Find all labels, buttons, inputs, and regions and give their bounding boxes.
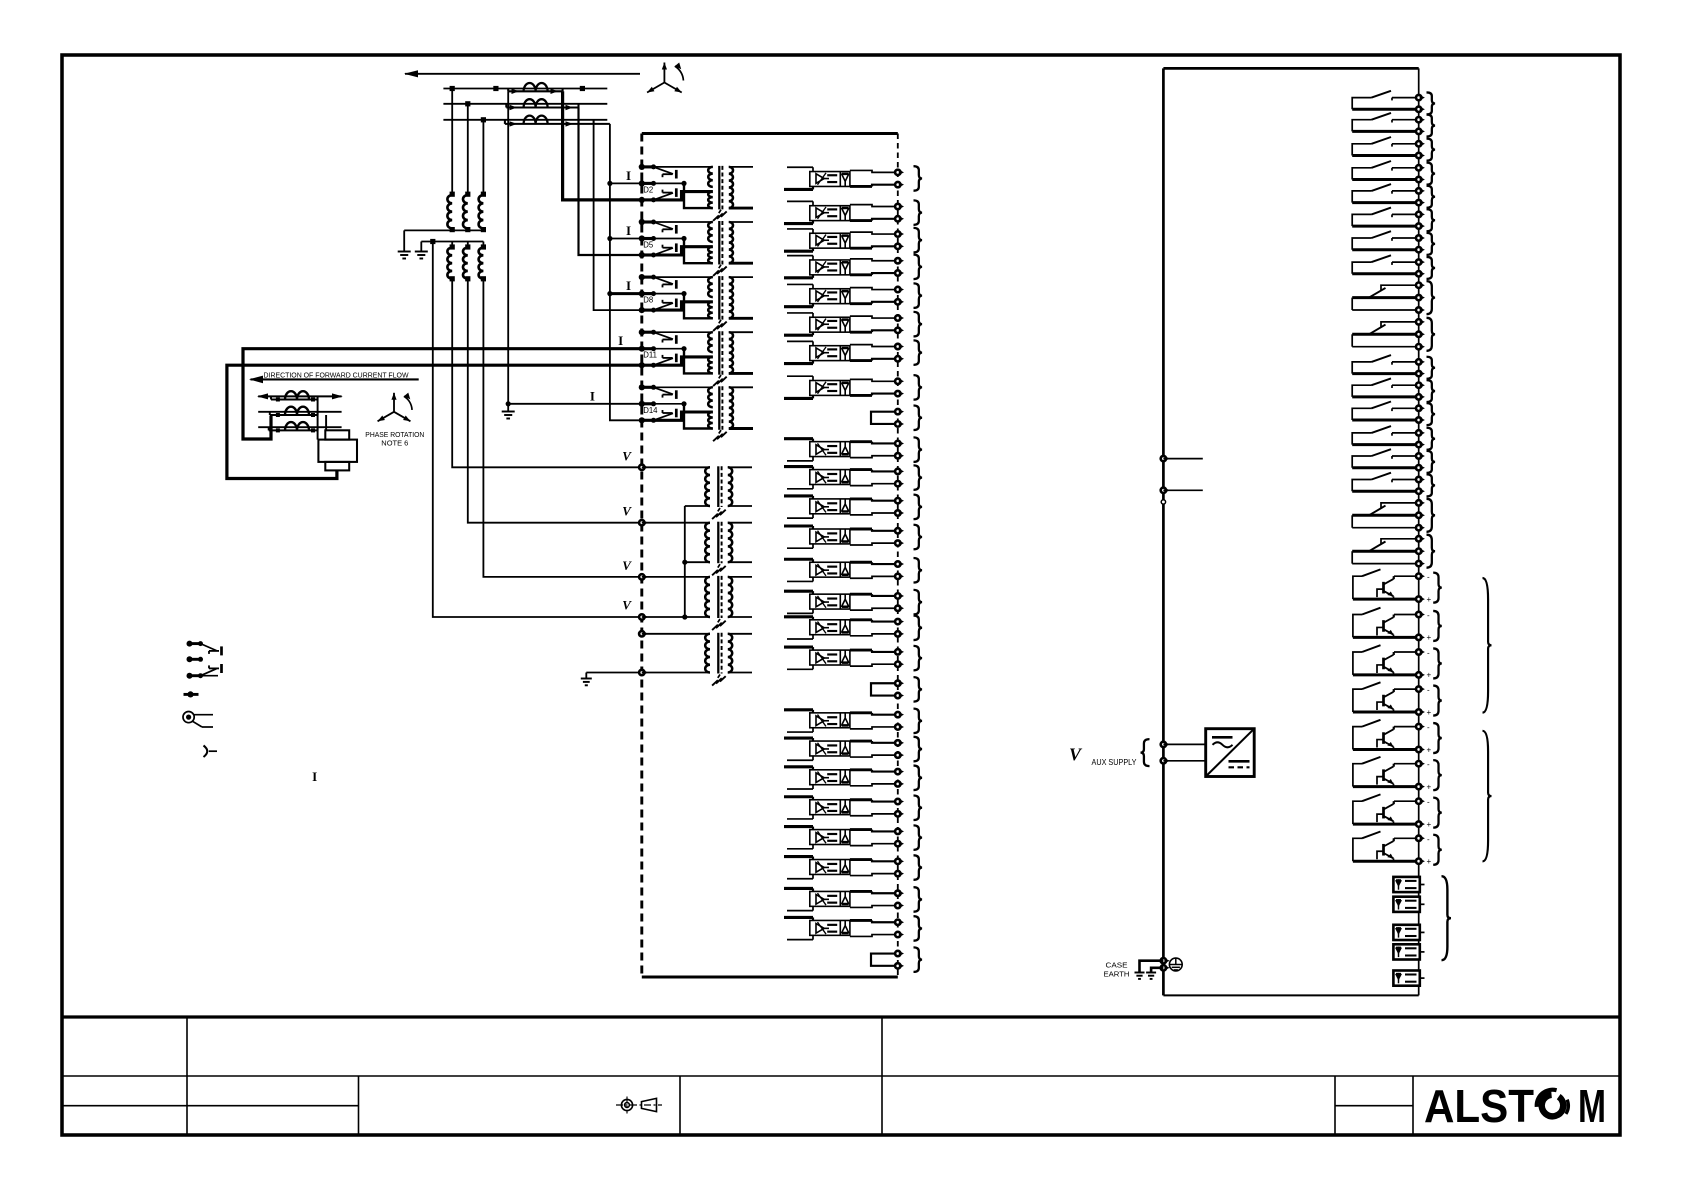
- terminal brace L12: [914, 495, 923, 520]
- svg-text:EARTH: EARTH: [1104, 970, 1130, 979]
- wire to D11 t3: [227, 365, 642, 478]
- high speed output contact Q4: [1394, 688, 1419, 690]
- node/branch to D8 t2 (thick): [607, 291, 612, 296]
- opto input L8: [787, 375, 813, 377]
- svg-text:I: I: [312, 769, 317, 784]
- high speed output contact Q6: [1394, 763, 1419, 765]
- svg-text:I: I: [590, 388, 595, 403]
- terminal brace RL6: [1427, 209, 1436, 231]
- ground: [581, 678, 592, 680]
- terminal brace Q1: [1433, 573, 1442, 603]
- title block: [62, 1015, 1620, 1018]
- opto input L20: [787, 759, 813, 761]
- transformer T-D2: [708, 167, 713, 187]
- transformer T-D8: [708, 277, 713, 297]
- CT phase B: [505, 104, 507, 108]
- first-angle projection symbol: [621, 1099, 632, 1110]
- output contact RL15 (N/O): [1392, 455, 1419, 457]
- svg-text:V: V: [622, 558, 632, 573]
- transformer T-D11: [708, 332, 713, 352]
- output contact RL6 (N/O): [1392, 213, 1419, 215]
- VT common return: [685, 505, 710, 507]
- terminal brace RL11: [1427, 357, 1436, 379]
- svg-text:I: I: [626, 278, 631, 293]
- directional CT phase B: [269, 412, 271, 415]
- legend: terminal: [184, 693, 199, 696]
- svg-text:+: +: [1427, 857, 1432, 866]
- svg-text:D5: D5: [643, 241, 654, 250]
- legend: disconnect hook: [204, 746, 208, 758]
- ground: [1135, 972, 1145, 974]
- terminal brace L2: [914, 200, 923, 225]
- terminal brace L17: [914, 646, 923, 671]
- group brace fibre outputs: [1442, 876, 1452, 960]
- group brace high-speed 5-8: [1483, 731, 1492, 862]
- current input D11: [642, 331, 654, 334]
- transistor Q3: [1382, 658, 1385, 670]
- high speed output contact Q5: [1394, 726, 1419, 728]
- transistor Q7: [1382, 807, 1385, 819]
- relay input module case: [642, 132, 898, 135]
- voltage transformer: [705, 634, 710, 673]
- VT primary tap C: [481, 117, 486, 122]
- phase busbar C: [443, 119, 607, 121]
- output contact RL5 (N/O): [1392, 190, 1419, 192]
- terminal link row 27: [871, 954, 898, 966]
- output contact RL17 (changeover): [1381, 503, 1419, 509]
- svg-text:DIRECTION OF FORWARD CURRENT F: DIRECTION OF FORWARD CURRENT FLOW: [264, 372, 409, 379]
- terminal brace L15: [914, 590, 923, 615]
- opto input L25: [787, 910, 813, 912]
- svg-text:V: V: [622, 448, 632, 463]
- terminal brace RL17: [1427, 499, 1436, 532]
- terminal link row 18: [871, 683, 898, 695]
- ground: [1146, 972, 1156, 974]
- opto input L5: [787, 283, 813, 285]
- terminal brace RL5: [1427, 186, 1436, 208]
- voltage transformer V1: [705, 467, 710, 506]
- phase busbar A: [443, 88, 607, 90]
- wire VT phase A to V1: [452, 279, 642, 468]
- wire CT3s to D8: [594, 124, 642, 310]
- output contact RL9 (changeover): [1381, 285, 1419, 291]
- voltage input Vx: [639, 631, 644, 636]
- line CT bus stub A: [258, 395, 341, 397]
- directional CT phase C: [268, 427, 270, 430]
- VT star point 1 / earth: [404, 229, 483, 231]
- voltage input V3: [639, 574, 644, 579]
- terminal brace L3: [914, 228, 923, 253]
- voltage transformer V2: [705, 523, 710, 563]
- terminal brace RL7: [1427, 233, 1436, 255]
- svg-text:I: I: [618, 333, 623, 348]
- terminal brace L4: [914, 255, 923, 280]
- terminal brace L5: [914, 283, 923, 308]
- VT secondary winding group 1: [450, 192, 455, 197]
- high speed output contact Q1: [1394, 575, 1419, 577]
- opto input L13: [787, 547, 813, 549]
- terminal brace L23: [914, 825, 923, 850]
- opto input L24: [787, 878, 813, 880]
- node CT1 star point: [506, 401, 511, 406]
- terminal brace Q6: [1433, 760, 1442, 790]
- terminal brace L14: [914, 558, 923, 583]
- voltage input V1: [639, 465, 644, 470]
- svg-text:PHASE ROTATION: PHASE ROTATION: [365, 432, 424, 439]
- svg-text:+: +: [1427, 671, 1432, 680]
- svg-text:+: +: [1427, 708, 1432, 717]
- output contact RL4 (N/O): [1392, 167, 1419, 169]
- transformer T-D14: [708, 387, 713, 407]
- bus junction marks: [493, 86, 498, 91]
- svg-text:-: -: [1427, 649, 1430, 658]
- case earth terminals: [1161, 958, 1166, 963]
- svg-text:D14: D14: [643, 406, 658, 415]
- svg-text:V: V: [1069, 745, 1083, 765]
- output contact RL16 (N/O): [1392, 479, 1419, 481]
- node/branch to D5 t2: [607, 236, 612, 241]
- wire CT common to D14: [610, 124, 642, 420]
- output contact RL1 (N/O): [1392, 97, 1419, 99]
- terminal brace row 18: [914, 677, 923, 702]
- current input D5: [642, 220, 654, 223]
- terminal brace RL3: [1427, 139, 1436, 161]
- high speed output contact Q3: [1394, 651, 1419, 653]
- legend: case socket: [183, 712, 194, 723]
- current input D14: [642, 386, 654, 389]
- svg-text:AUX SUPPLY: AUX SUPPLY: [1092, 757, 1137, 767]
- VT primary tap A: [450, 86, 455, 91]
- terminal brace row 27: [914, 947, 923, 972]
- opto input L4: [787, 255, 813, 257]
- transformer T-D5: [708, 222, 713, 242]
- terminal brace L21: [914, 766, 923, 791]
- spare terminals: [1161, 456, 1166, 461]
- terminal brace L22: [914, 796, 923, 821]
- svg-text:ALST: ALST: [1424, 1080, 1534, 1132]
- wire CT1s2 to D2 (thick): [563, 91, 642, 200]
- svg-text:D11: D11: [643, 351, 657, 360]
- phase rotation symbol: [663, 63, 665, 83]
- terminal brace Q5: [1433, 723, 1442, 753]
- ground (screen): [719, 375, 721, 378]
- output contact RL12 (N/O): [1392, 384, 1419, 386]
- interposing transformer box: [318, 440, 357, 462]
- ground (screen): [719, 430, 721, 433]
- fibre-optic output module 2: [1393, 897, 1419, 912]
- svg-text:D2: D2: [643, 185, 653, 194]
- terminal brace L19: [914, 709, 923, 734]
- legend: CT shorting contacts: [190, 642, 201, 645]
- svg-text:-: -: [1427, 798, 1430, 807]
- protective earth symbol: [1169, 958, 1182, 971]
- high speed output contact Q7: [1394, 800, 1419, 802]
- terminal brace RL12: [1427, 380, 1436, 402]
- terminal brace L26: [914, 916, 923, 941]
- svg-text:CASE: CASE: [1106, 961, 1128, 970]
- svg-text:I: I: [626, 223, 631, 238]
- terminal brace Q3: [1433, 648, 1442, 678]
- svg-text:NOTE 6: NOTE 6: [381, 441, 408, 448]
- svg-text:+: +: [1427, 820, 1432, 829]
- terminal brace L7: [914, 340, 923, 365]
- line CT bus stub C: [258, 426, 341, 428]
- opto input L11: [787, 488, 813, 490]
- terminal brace Q2: [1433, 611, 1442, 641]
- terminal brace L11: [914, 465, 923, 490]
- output contact RL13 (N/O): [1392, 407, 1419, 409]
- svg-text:M: M: [1578, 1080, 1606, 1132]
- terminal brace RL8: [1427, 257, 1436, 279]
- svg-text:-: -: [1427, 723, 1430, 732]
- terminal brace RL10: [1427, 318, 1436, 351]
- fibre-optic output module 3: [1393, 925, 1419, 940]
- terminal brace Q7: [1433, 798, 1442, 828]
- svg-text:-: -: [1427, 573, 1430, 582]
- wire VT phase C to V3: [483, 279, 641, 577]
- line CT bus stub B: [258, 411, 341, 413]
- opto input L19: [787, 731, 813, 733]
- terminal brace L1: [914, 166, 923, 191]
- ground: [502, 411, 515, 413]
- wire VT phase B to V2: [468, 279, 642, 523]
- svg-text:I: I: [626, 168, 631, 183]
- svg-text:+: +: [1427, 595, 1432, 604]
- high speed output contact Q2: [1394, 614, 1419, 616]
- terminal brace Q8: [1433, 835, 1442, 865]
- svg-text:V: V: [622, 598, 632, 613]
- terminal brace row 9: [914, 406, 923, 431]
- power supply unit: [1206, 729, 1255, 777]
- terminal brace L16: [914, 616, 923, 641]
- output contact RL11 (N/O): [1392, 361, 1419, 363]
- transistor Q4: [1382, 695, 1385, 707]
- wire CT2s to D5: [579, 108, 642, 256]
- group brace high-speed 1-4: [1483, 578, 1492, 713]
- terminal brace RL9: [1427, 281, 1436, 314]
- svg-text:-: -: [1427, 611, 1430, 620]
- transistor Q5: [1382, 732, 1385, 744]
- output contact RL10 (changeover): [1381, 322, 1419, 328]
- node/branch to D2 t2: [607, 181, 612, 186]
- opto input L7: [787, 340, 813, 342]
- terminal brace RL14: [1427, 428, 1436, 450]
- opto input L23: [787, 848, 813, 850]
- wire Vx earth: [586, 672, 642, 674]
- opto input L12: [787, 517, 813, 519]
- terminal brace L6: [914, 312, 923, 337]
- high speed output contact Q8: [1394, 837, 1419, 839]
- output relay module case: [1163, 67, 1418, 70]
- terminal brace L25: [914, 887, 923, 912]
- wire to D11 t2: [243, 349, 642, 439]
- opto input L21: [787, 788, 813, 790]
- svg-text:D8: D8: [643, 296, 653, 305]
- ground (screen): [718, 619, 720, 622]
- ground (screen): [718, 508, 720, 511]
- opto input L3: [787, 228, 813, 230]
- ground (screen): [719, 320, 721, 323]
- opto input L14: [787, 580, 813, 582]
- opto input L10: [787, 460, 813, 462]
- svg-text:-: -: [1427, 686, 1430, 695]
- opto input L26: [787, 939, 813, 941]
- transistor Q8: [1382, 844, 1385, 856]
- terminal brace L13: [914, 525, 923, 550]
- opto input L22: [787, 818, 813, 820]
- terminal link row 9: [871, 412, 898, 424]
- transistor Q6: [1382, 769, 1385, 781]
- current input D2: [642, 165, 654, 168]
- VT secondary winding group 2: [421, 241, 483, 243]
- terminal brace L8: [914, 375, 923, 400]
- phase busbar B: [443, 103, 607, 105]
- ground: [398, 251, 411, 253]
- opto input L1: [787, 166, 813, 168]
- ground (screen): [718, 564, 720, 567]
- opto input L2: [787, 200, 813, 202]
- ground (screen): [719, 265, 721, 268]
- opto input L6: [787, 312, 813, 314]
- terminal brace RL13: [1427, 403, 1436, 425]
- terminal brace Q4: [1433, 686, 1442, 716]
- terminal brace L24: [914, 855, 923, 880]
- output contact RL3 (N/O): [1392, 143, 1419, 145]
- transistor Q1: [1382, 582, 1385, 594]
- current input D8: [642, 276, 654, 279]
- terminal brace RL15: [1427, 451, 1436, 473]
- wires CT group to transformer: [317, 400, 319, 440]
- svg-text:+: +: [1427, 745, 1432, 754]
- directional CT phase A: [270, 396, 272, 399]
- voltage transformer V3: [705, 577, 710, 617]
- output contact RL8 (N/O): [1392, 261, 1419, 263]
- aux supply terminals: [1161, 742, 1166, 747]
- output contact RL18 (changeover): [1381, 539, 1419, 545]
- ground (screen): [718, 675, 720, 678]
- ground (screen): [719, 210, 721, 213]
- opto input L17: [787, 668, 813, 670]
- fibre-optic output module 4: [1393, 944, 1419, 959]
- CT phase C: [504, 120, 506, 124]
- svg-text:-: -: [1427, 835, 1430, 844]
- terminal brace L20: [914, 737, 923, 762]
- wire VT neutral to VN: [433, 242, 642, 618]
- output contact RL7 (N/O): [1392, 237, 1419, 239]
- terminal brace RL1: [1427, 92, 1436, 114]
- ground: [415, 251, 428, 253]
- opto input L16: [787, 638, 813, 640]
- terminal brace RL16: [1427, 474, 1436, 496]
- transistor Q2: [1382, 620, 1385, 632]
- fibre-optic output module 5: [1393, 971, 1419, 986]
- svg-text:V: V: [622, 504, 632, 519]
- wire CT1s1 to D14 terminal: [507, 91, 509, 404]
- phase rotation symbol: [393, 393, 395, 412]
- opto input L15: [787, 612, 813, 614]
- CT phase A: [507, 89, 509, 92]
- output contact RL2 (N/O): [1392, 119, 1419, 121]
- terminal brace RL4: [1427, 163, 1436, 185]
- fibre-optic output module 1: [1393, 877, 1419, 892]
- svg-text:-: -: [1427, 760, 1430, 769]
- voltage input V2: [639, 520, 644, 525]
- VT primary tap B: [465, 101, 470, 106]
- output contact RL14 (N/O): [1392, 432, 1419, 434]
- busbar arrow (to feeder): [405, 73, 640, 75]
- terminal brace L10: [914, 437, 923, 462]
- terminal brace RL2: [1427, 115, 1436, 137]
- terminal brace RL18: [1427, 535, 1436, 568]
- svg-text:+: +: [1427, 633, 1432, 642]
- svg-text:+: +: [1427, 782, 1432, 791]
